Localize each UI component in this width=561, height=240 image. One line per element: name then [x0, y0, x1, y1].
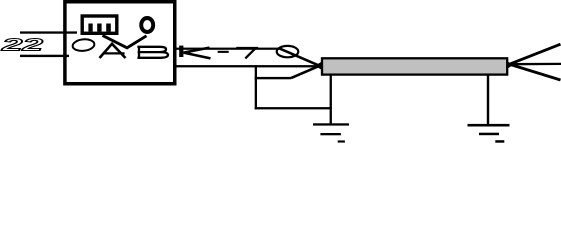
branch diagonal into tube — [291, 66, 320, 78]
tube (gas discharge tube) — [322, 58, 507, 74]
wire2: box to tube mid — [175, 65, 318, 67]
wire mains input bottom — [20, 55, 69, 57]
letter В of АВК-70 — [137, 46, 168, 58]
ground 1 — [313, 123, 349, 125]
digit 7 of АВК-70 — [236, 48, 256, 58]
rays right of tube — [510, 44, 561, 64]
ground 2 — [468, 124, 510, 127]
branch lower horizontal — [255, 77, 291, 79]
letter V of 220V — [103, 35, 147, 47]
letter К of АВК-70 — [179, 46, 183, 57]
wire1 diagonal into tube — [280, 49, 319, 66]
wire1: box to tube top path — [175, 48, 281, 50]
lead tube to ground 1 — [330, 75, 332, 125]
junction drop at x=256 — [255, 65, 257, 109]
box АВК-70 unit — [65, 2, 175, 84]
bottom horizontal to ground lead — [255, 107, 332, 109]
svg-text:22: 22 — [1, 35, 43, 55]
wire mains input top — [20, 31, 77, 33]
label 220 (outlined italic digits) — [1, 35, 43, 55]
digit 0 of 220 (outlined oval) — [72, 38, 95, 52]
lead tube to ground 2 — [487, 75, 489, 125]
digit 0 of АВК-70 — [277, 46, 299, 57]
letter А of АВК-70 — [100, 44, 126, 58]
comb icon (connector symbol) — [82, 16, 117, 33]
O ring indicator — [141, 18, 153, 32]
left convergence blob — [315, 62, 322, 71]
dash of АВК-70 — [218, 51, 229, 53]
